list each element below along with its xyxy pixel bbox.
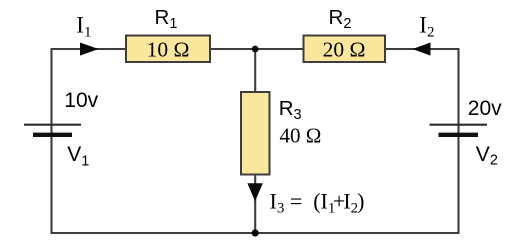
current arrow I1 <box>80 43 99 56</box>
resistor R2 <box>304 36 386 63</box>
node B junction dot bottom <box>252 229 259 236</box>
svg-text:10v: 10v <box>64 89 98 112</box>
wire right branch <box>457 48 459 233</box>
svg-text:I3 = (I1+I2): I3 = (I1+I2) <box>270 189 365 217</box>
battery V1 <box>24 125 81 135</box>
svg-text:20 Ω: 20 Ω <box>323 37 366 61</box>
battery V2 <box>430 125 488 135</box>
wire bottom <box>51 232 460 234</box>
node A junction dot top <box>252 46 259 53</box>
current arrow I2 <box>413 43 431 56</box>
current arrow I3 <box>247 183 262 201</box>
wire middle branch <box>254 49 256 233</box>
wire left branch <box>50 48 52 233</box>
svg-text:10 Ω: 10 Ω <box>147 37 190 61</box>
wire top (node between R1 and R2) <box>52 48 459 50</box>
svg-text:40 Ω: 40 Ω <box>280 124 322 148</box>
resistor R3 <box>241 92 270 175</box>
svg-text:20v: 20v <box>468 97 502 120</box>
resistor R1 <box>126 36 210 63</box>
